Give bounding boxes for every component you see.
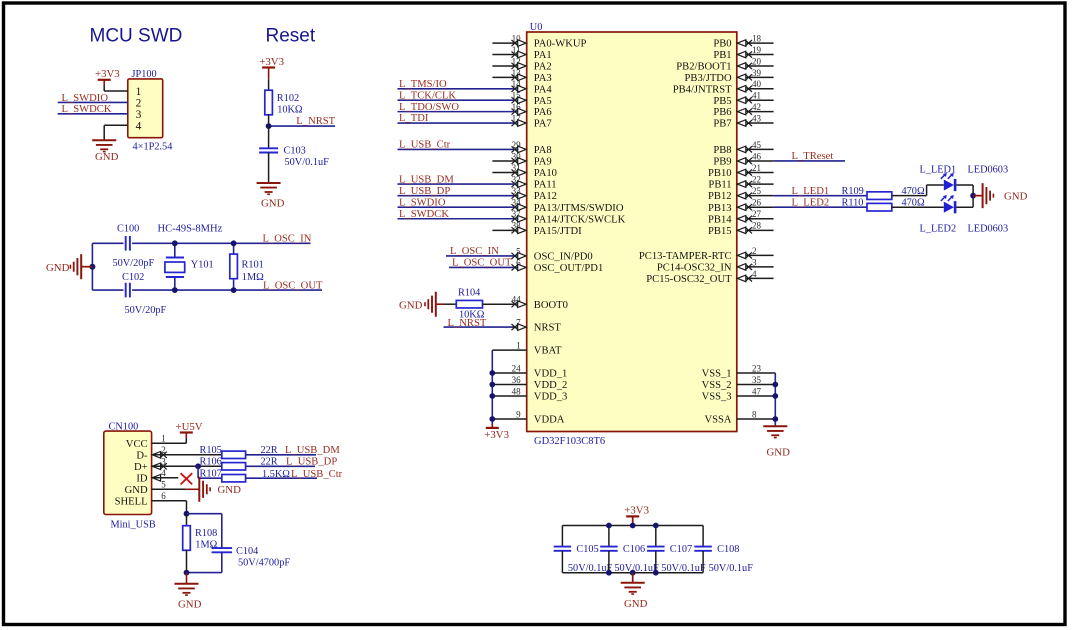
svg-text:40: 40 — [752, 79, 762, 89]
pin 6 OSC_OUT/PD1 — [512, 258, 604, 274]
svg-text:C106: C106 — [623, 544, 645, 555]
svg-text:19: 19 — [752, 45, 762, 55]
svg-text:PB15: PB15 — [708, 226, 732, 237]
pin 3 PC14-OSC32_IN (right) — [657, 257, 774, 273]
svg-text:SHELL: SHELL — [115, 496, 148, 507]
junction (Y101 bottom) — [172, 287, 178, 293]
value 10KΩ (R104) — [459, 309, 485, 320]
junction (VSS rail 35) — [772, 382, 778, 388]
ground (SWD header) — [92, 140, 118, 163]
label CN100 — [109, 422, 139, 433]
ground (LED, sideways) — [973, 183, 1027, 208]
value 470Ω (R110) — [902, 198, 925, 209]
svg-text:PA11: PA11 — [534, 180, 557, 191]
pin 23 VSS_1 — [702, 363, 776, 379]
svg-text:ID: ID — [136, 473, 148, 484]
svg-text:NRST: NRST — [534, 323, 562, 334]
net label L_USB_DM — [285, 445, 340, 456]
svg-text:5: 5 — [161, 480, 166, 490]
pin 9 VDDA — [492, 409, 564, 425]
junction (Y101 top) — [172, 240, 178, 246]
svg-text:L_USB_DP: L_USB_DP — [286, 457, 337, 468]
svg-text:26: 26 — [752, 198, 762, 208]
power +3V3 (MCU VDD rail) — [484, 424, 509, 441]
net label L_USB_DP — [286, 457, 337, 468]
pin number JP100.3 — [136, 109, 142, 121]
wire C104 bottom to shell node bottom — [187, 572, 222, 574]
net L_SWDCK (wire to pin 37) — [398, 209, 515, 220]
wire crystal bottom rail — [92, 289, 322, 291]
net wire L_LED1 to R109 — [774, 195, 867, 197]
title MCU SWD — [90, 25, 183, 46]
svg-text:50V/0.1uF: 50V/0.1uF — [661, 563, 706, 574]
pin 36 VDD_2 — [492, 375, 567, 391]
svg-text:PA9: PA9 — [534, 157, 552, 168]
junction (bottom rail gnd) — [630, 570, 636, 576]
svg-text:D+: D+ — [134, 462, 148, 473]
resistor R107 — [200, 469, 246, 482]
pin 32 PA11 (left) — [512, 174, 557, 190]
wire shell node to C104 branch — [187, 514, 222, 549]
label L_LED2 (designator) — [920, 224, 957, 235]
svg-text:L_SWDCK: L_SWDCK — [399, 209, 449, 220]
svg-text:L_NRST: L_NRST — [448, 318, 487, 329]
svg-text:LED0603: LED0603 — [968, 164, 1009, 175]
value 50V/0.1uF (C108) — [709, 563, 754, 574]
svg-text:L_TReset: L_TReset — [792, 151, 834, 162]
svg-text:OSC_IN/PD0: OSC_IN/PD0 — [534, 252, 593, 263]
net L_TDO/SWO (wire to pin 16) — [398, 102, 515, 113]
pin name CN100 SHELL — [115, 496, 148, 507]
svg-text:PC14-OSC32_IN: PC14-OSC32_IN — [657, 263, 732, 274]
svg-text:VSS_2: VSS_2 — [702, 380, 732, 391]
svg-text:L_TCK/CLK: L_TCK/CLK — [399, 90, 456, 101]
svg-text:L_SWDCK: L_SWDCK — [62, 104, 112, 115]
svg-text:L_USB_DM: L_USB_DM — [285, 445, 340, 456]
wire VSS ground rail — [774, 373, 776, 426]
net L_USB_DP wire — [246, 465, 315, 467]
svg-text:PA8: PA8 — [534, 145, 552, 156]
pin 14 PA4 (left) — [512, 79, 553, 95]
pin 37 PA14/JTCK/SWCLK (left) — [512, 209, 626, 225]
resistor R102 — [265, 90, 303, 115]
svg-text:R109: R109 — [842, 186, 864, 197]
svg-text:8: 8 — [752, 409, 757, 419]
svg-text:Mini_USB: Mini_USB — [111, 520, 156, 531]
svg-text:24: 24 — [512, 363, 522, 373]
svg-text:C108: C108 — [717, 544, 739, 555]
label HC-49S-8MHz — [158, 224, 223, 235]
net L_USB_DM (wire to pin 32) — [398, 174, 515, 185]
net L_SWDIO (wire to JP100 pin2) — [58, 93, 128, 104]
pin 21 PB10 (right) — [708, 163, 774, 179]
svg-text:PA13/JTMS/SWDIO: PA13/JTMS/SWDIO — [534, 203, 624, 214]
pin D+ glyph and wire — [152, 463, 222, 470]
value 22R (R106) — [261, 457, 278, 468]
pin 48 VDD_3 — [492, 386, 567, 402]
capacitor C102 — [122, 272, 144, 297]
resistor R104 — [444, 288, 515, 308]
svg-text:+3V3: +3V3 — [95, 68, 120, 80]
svg-text:Reset: Reset — [266, 26, 316, 47]
svg-text:L_NRST: L_NRST — [296, 116, 335, 127]
pin 1 VBAT — [492, 341, 562, 357]
svg-text:41: 41 — [752, 91, 761, 101]
svg-text:50V/20pF: 50V/20pF — [125, 305, 167, 316]
label LED0603 (LED2) — [968, 224, 1009, 235]
svg-text:L_OSC_IN: L_OSC_IN — [450, 246, 499, 257]
pin 41 PB5 (right) — [713, 91, 773, 107]
svg-text:GD32F103C8T6: GD32F103C8T6 — [534, 436, 605, 447]
no-connect X (ID pin) — [181, 473, 193, 484]
junction (reset node) — [266, 123, 272, 129]
wire crystal left vertical — [91, 243, 93, 290]
pin 20 PB2/BOOT1 (right) — [676, 56, 773, 72]
svg-text:L_TDI: L_TDI — [399, 113, 429, 124]
svg-text:50V/0.1uF: 50V/0.1uF — [285, 157, 330, 168]
svg-text:PA0-WKUP: PA0-WKUP — [534, 39, 587, 50]
svg-text:1: 1 — [516, 341, 521, 351]
pin number CN100.2 — [161, 445, 166, 455]
pin 18 PB0 (right) — [713, 34, 773, 50]
svg-text:GND: GND — [46, 262, 70, 274]
junction (bottom rail C106) — [606, 570, 612, 576]
svg-text:JP100: JP100 — [132, 69, 157, 80]
svg-text:PB6: PB6 — [713, 107, 731, 118]
svg-text:L_USB_Ctr: L_USB_Ctr — [399, 140, 451, 151]
junction (top rail C107) — [653, 523, 659, 529]
svg-text:PA7: PA7 — [534, 119, 552, 130]
svg-text:GND: GND — [767, 447, 791, 459]
resistor R106 — [200, 457, 246, 470]
net wire L_LED2 to R110 — [774, 206, 867, 208]
ground (BOOT0 pulldown, sideways) — [399, 292, 444, 317]
svg-text:PB13: PB13 — [708, 203, 732, 214]
svg-text:C105: C105 — [576, 544, 598, 555]
wire D+ branch to R107 — [198, 466, 222, 478]
LED L_LED2 — [941, 195, 957, 213]
capacitor C107 — [647, 526, 692, 573]
svg-text:25: 25 — [752, 186, 762, 196]
svg-text:PB5: PB5 — [713, 96, 731, 107]
resistor R101 — [230, 243, 264, 290]
svg-text:27: 27 — [752, 209, 762, 219]
label U0 — [530, 22, 543, 33]
title Reset — [266, 26, 316, 47]
pin number CN100.5 — [161, 480, 166, 490]
svg-text:Y101: Y101 — [191, 259, 214, 270]
svg-text:VDD_1: VDD_1 — [534, 369, 568, 380]
pin 46 PB9 (right) — [713, 151, 773, 167]
svg-text:48: 48 — [512, 386, 522, 396]
svg-text:GND: GND — [178, 598, 202, 610]
svg-text:PA5: PA5 — [534, 96, 552, 107]
net L_USB_DM wire — [246, 454, 316, 456]
pin number CN100.6 — [161, 491, 166, 501]
svg-text:PA1: PA1 — [534, 50, 552, 61]
crystal Y101 — [165, 243, 214, 290]
svg-text:D-: D- — [136, 450, 148, 461]
svg-text:PB4/JNTRST: PB4/JNTRST — [673, 84, 732, 95]
svg-text:L_TDO/SWO: L_TDO/SWO — [399, 102, 459, 113]
svg-text:PA12: PA12 — [534, 191, 557, 202]
pin number JP100.2 — [136, 98, 142, 110]
wire JP100 pin4 to ground — [104, 125, 128, 140]
junction (crystal gnd tap) — [89, 264, 95, 270]
svg-text:LED0603: LED0603 — [968, 224, 1009, 235]
pin name CN100 D+ — [134, 462, 148, 473]
svg-text:4: 4 — [752, 269, 757, 279]
svg-text:+3V3: +3V3 — [259, 56, 284, 68]
value 50V/0.1uF (C105) — [568, 563, 613, 574]
junction (VDD rail 36) — [489, 382, 495, 388]
junction (top rail +3V3) — [630, 523, 636, 529]
pin 4 PC15-OSC32_OUT (right) — [646, 269, 773, 285]
svg-text:L_USB_DM: L_USB_DM — [399, 174, 454, 185]
value 50V/0.1uF (C107) — [661, 563, 706, 574]
pin 19 PB1 (right) — [713, 45, 773, 61]
svg-text:L_SWDIO: L_SWDIO — [399, 197, 446, 208]
power +U5V — [152, 421, 203, 443]
svg-text:36: 36 — [512, 375, 522, 385]
junction (VDD rail 48) — [489, 393, 495, 399]
svg-text:+U5V: +U5V — [176, 421, 203, 433]
capacitor C105 — [554, 526, 599, 573]
junction (VDD rail 24) — [489, 370, 495, 376]
svg-text:PA14/JTCK/SWCLK: PA14/JTCK/SWCLK — [534, 214, 626, 225]
junction (top rail C106) — [606, 523, 612, 529]
power +3V3 (decoupling) — [624, 504, 649, 525]
svg-text:VSS_1: VSS_1 — [702, 369, 732, 380]
svg-text:PA2: PA2 — [534, 62, 552, 73]
pin number CN100.1 — [161, 434, 166, 444]
resistor R110 — [842, 198, 892, 211]
svg-text:C102: C102 — [122, 272, 144, 283]
svg-text:3: 3 — [136, 109, 142, 121]
ground (USB GND pin, sideways) — [199, 477, 241, 502]
wire VDD supply rail — [491, 350, 493, 424]
junction (VSS rail 47) — [772, 393, 778, 399]
pin 17 PA7 (left) — [512, 113, 552, 129]
power +3V3 (reset) — [259, 56, 284, 91]
pin 24 VDD_1 — [492, 363, 567, 379]
svg-text:4: 4 — [136, 121, 142, 133]
pin 40 PB4/JNTRST (right) — [673, 79, 774, 95]
pin 34 PA13/JTMS/SWDIO (left) — [512, 198, 624, 214]
svg-text:MCU SWD: MCU SWD — [90, 25, 183, 46]
pin 2 PC13-TAMPER-RTC (right) — [639, 246, 774, 262]
svg-text:GND: GND — [218, 484, 242, 496]
label L_LED1 (designator) — [920, 164, 957, 175]
svg-text:VCC: VCC — [126, 439, 148, 450]
svg-text:VDDA: VDDA — [534, 415, 565, 426]
svg-text:L_SWDIO: L_SWDIO — [62, 93, 109, 104]
label LED0603 (LED1) — [968, 164, 1009, 175]
resistor R108 — [183, 514, 218, 573]
svg-text:PB2/BOOT1: PB2/BOOT1 — [676, 62, 731, 73]
capacitor C100 — [117, 224, 139, 251]
svg-text:50V/0.1uF: 50V/0.1uF — [709, 563, 754, 574]
connector JP100 — [128, 79, 163, 138]
pin 10 PA0-WKUP (left) — [492, 34, 586, 50]
pin D- glyph and wire — [152, 452, 222, 459]
svg-text:+3V3: +3V3 — [624, 504, 649, 516]
svg-text:L_TMS/IO: L_TMS/IO — [399, 79, 447, 90]
power +3V3 (SWD header) — [95, 68, 120, 91]
pin 11 PA1 (left) — [492, 45, 551, 61]
pin 12 PA2 (left) — [492, 56, 551, 72]
svg-text:22: 22 — [752, 174, 761, 184]
junction (R101 top) — [231, 240, 237, 246]
svg-text:6: 6 — [161, 491, 166, 501]
svg-text:PB3/JTDO: PB3/JTDO — [685, 73, 732, 84]
capacitor C103 — [259, 146, 329, 169]
ground (reset) — [257, 183, 285, 210]
pin 38 PA15/JTDI (left) — [492, 221, 582, 237]
svg-text:PA3: PA3 — [534, 73, 552, 84]
svg-text:PB8: PB8 — [713, 145, 731, 156]
pin 16 PA6 (left) — [512, 102, 552, 118]
connector CN100 (Mini USB) — [104, 431, 152, 514]
pin 35 VSS_2 — [702, 375, 776, 391]
svg-text:GND: GND — [399, 299, 423, 311]
pin 45 PB8 (right) — [713, 140, 773, 156]
capacitor C104 — [212, 546, 259, 573]
pin ID glyph and wire — [152, 475, 179, 482]
pin 31 PA10 (left) — [492, 163, 557, 179]
wire R110 to LED2 — [892, 206, 944, 208]
wire decoupling bottom rail — [562, 572, 703, 574]
svg-text:C104: C104 — [236, 546, 258, 557]
svg-text:2: 2 — [752, 246, 757, 256]
value 50V/0.1uF (C106) — [614, 563, 659, 574]
svg-text:L_OSC_IN: L_OSC_IN — [263, 234, 312, 245]
pin 27 PB14 (right) — [708, 209, 774, 225]
pin 8 VSSA — [705, 409, 776, 425]
pin 26 PB13 (right) — [708, 198, 774, 214]
svg-text:L_USB_DP: L_USB_DP — [399, 186, 450, 197]
value 22R (R105) — [261, 445, 278, 456]
svg-text:L_LED2: L_LED2 — [792, 197, 830, 208]
svg-text:22R: 22R — [261, 457, 278, 468]
junction (VDDA rail) — [489, 416, 495, 422]
svg-text:L_LED2: L_LED2 — [920, 224, 957, 235]
svg-text:10KΩ: 10KΩ — [277, 105, 303, 116]
svg-text:PB11: PB11 — [708, 180, 731, 191]
pin 47 VSS_3 — [702, 386, 776, 402]
svg-text:42: 42 — [752, 102, 761, 112]
svg-text:9: 9 — [516, 409, 521, 419]
pin 25 PB12 (right) — [708, 186, 774, 202]
svg-text:28: 28 — [752, 221, 762, 231]
svg-text:GND: GND — [261, 198, 285, 210]
pin number JP100.1 — [136, 86, 142, 98]
svg-text:1: 1 — [161, 434, 166, 444]
svg-text:C103: C103 — [284, 146, 306, 157]
pin 39 PB3/JTDO (right) — [685, 68, 774, 84]
svg-text:C100: C100 — [117, 224, 139, 235]
LED L_LED1 — [941, 173, 957, 191]
svg-text:1: 1 — [136, 86, 142, 98]
svg-text:50V/20pF: 50V/20pF — [113, 258, 155, 269]
svg-text:CN100: CN100 — [109, 422, 139, 433]
IC U0 GD32F103C8T6 (body) — [527, 32, 737, 432]
svg-text:VSS_3: VSS_3 — [702, 392, 732, 403]
value 470Ω (R109) — [902, 186, 925, 197]
pin 42 PB6 (right) — [713, 102, 773, 118]
svg-text:GND: GND — [1004, 190, 1028, 202]
svg-text:HC-49S-8MHz: HC-49S-8MHz — [158, 224, 223, 235]
pin name CN100 D- — [136, 450, 148, 461]
net L_NRST (reset) — [269, 116, 336, 127]
net L_TMS/IO (wire to pin 14) — [398, 79, 515, 90]
svg-text:1MΩ: 1MΩ — [242, 272, 264, 283]
svg-text:PB12: PB12 — [708, 191, 732, 202]
pin name CN100 GND — [125, 485, 148, 496]
svg-text:47: 47 — [752, 386, 762, 396]
svg-text:GND: GND — [95, 151, 119, 163]
junction (shell node top) — [184, 511, 190, 517]
svg-text:PA15/JTDI: PA15/JTDI — [534, 226, 582, 237]
pin 22 PB11 (right) — [708, 174, 773, 190]
net L_USB_DP (wire to pin 33) — [398, 186, 515, 197]
net L_OSC_IN (wire to pin 5) — [446, 246, 514, 257]
pin number JP100.4 — [136, 121, 142, 133]
svg-text:18: 18 — [752, 34, 762, 44]
svg-text:PB0: PB0 — [713, 39, 731, 50]
net L_SWDIO (wire to pin 34) — [398, 197, 515, 208]
pin number CN100.4 — [161, 468, 166, 478]
svg-text:R108: R108 — [195, 528, 217, 539]
svg-text:VDD_3: VDD_3 — [534, 392, 568, 403]
pin 30 PA9 (left) — [492, 151, 551, 167]
svg-text:3: 3 — [752, 257, 757, 267]
svg-text:L_LED1: L_LED1 — [920, 164, 957, 175]
svg-text:PB1: PB1 — [713, 50, 731, 61]
svg-text:39: 39 — [752, 68, 762, 78]
net L_TDI (wire to pin 17) — [398, 113, 515, 124]
junction (shell node bottom) — [184, 570, 190, 576]
svg-text:50V/0.1uF: 50V/0.1uF — [614, 563, 659, 574]
svg-text:L_OSC_OUT: L_OSC_OUT — [452, 258, 512, 269]
label 4×1P2.54 — [133, 141, 173, 152]
svg-text:R110: R110 — [842, 198, 864, 209]
net L_USB_Ctr wire — [246, 477, 317, 479]
svg-text:L_OSC_OUT: L_OSC_OUT — [263, 280, 323, 291]
pin name CN100 ID — [136, 473, 148, 484]
wire R102 to node L_NRST — [268, 115, 270, 127]
label Mini_USB — [111, 520, 156, 531]
pin 7 NRST — [512, 318, 562, 334]
wire JP100 pin1 to +3V3 — [104, 90, 128, 92]
net L_NRST (wire to pin 7) — [444, 318, 515, 329]
net label L_USB_Ctr — [291, 469, 343, 480]
value 50V/4700pF — [238, 558, 290, 569]
net L_OSC_IN (crystal) — [263, 234, 312, 245]
pin 33 PA12 (left) — [512, 186, 557, 202]
svg-text:R102: R102 — [277, 93, 299, 104]
svg-text:PC15-OSC32_OUT: PC15-OSC32_OUT — [646, 274, 732, 285]
label JP100 — [132, 69, 157, 80]
svg-text:PB7: PB7 — [713, 119, 731, 130]
junction (VSSA rail) — [772, 416, 778, 422]
svg-text:+3V3: +3V3 — [484, 429, 509, 441]
ground (USB shell) — [175, 573, 202, 611]
pin 29 PA8 (left) — [512, 140, 552, 156]
junction (R101 bottom) — [231, 287, 237, 293]
svg-text:R104: R104 — [458, 288, 480, 299]
value 1.5KΩ (R107) — [262, 469, 290, 480]
